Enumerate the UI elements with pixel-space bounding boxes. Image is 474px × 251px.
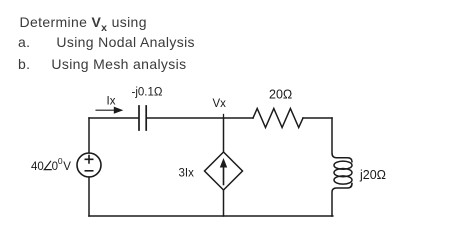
inductor L1 loop 2 [334, 169, 352, 177]
voltage source V1 circle [77, 153, 101, 177]
svg-text:-j0.1Ω: -j0.1Ω [132, 87, 163, 99]
svg-text:40: 40 [31, 161, 44, 173]
wire bottom [89, 215, 333, 217]
plus sign [85, 156, 92, 163]
angle symbol [44, 161, 51, 169]
svg-text:0: 0 [58, 156, 63, 166]
wire middle vertical top [223, 118, 225, 152]
resistor R1 zigzag 20 ohm [253, 109, 303, 128]
svg-text:20Ω: 20Ω [269, 88, 292, 102]
title line [20, 14, 147, 34]
svg-text:V: V [63, 161, 71, 173]
svg-text:3Ix: 3Ix [179, 168, 195, 180]
svg-text:j20Ω: j20Ω [359, 168, 386, 182]
Ix current arrow [96, 109, 114, 111]
arrow inside diamond [223, 165, 225, 185]
wire left vertical top [88, 118, 90, 153]
wire left vertical bottom [88, 177, 90, 216]
capacitor C1 plates (-j0.1 ohm) [139, 106, 146, 130]
wire: capacitor to node Vx to resistor [147, 117, 253, 119]
node junction stub at Vx [223, 115, 225, 119]
wire middle vertical bottom [223, 190, 225, 216]
item b [18, 56, 186, 72]
wire top-left: corner to capacitor [89, 117, 139, 119]
dependent current source diamond 3Ix [205, 152, 243, 190]
inductor L1 exit elbow and bottom run [332, 184, 352, 217]
inductor L1 loop 3 [334, 176, 352, 184]
wire: resistor to top-right corner [303, 117, 332, 119]
svg-text:Vx: Vx [213, 98, 227, 110]
item a [18, 34, 195, 50]
svg-text:Ix: Ix [107, 96, 116, 108]
minus sign [85, 170, 92, 172]
inductor L1 entry elbow and top run [332, 118, 352, 162]
inductor L1 loop 1 [334, 161, 352, 169]
